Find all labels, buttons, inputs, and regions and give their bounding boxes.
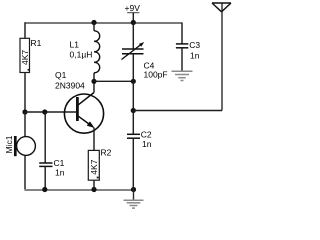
svg-text:R2: R2 bbox=[101, 148, 112, 158]
wire C4 bottom lead bbox=[132, 54, 134, 82]
variable capacitor C4 bbox=[122, 42, 145, 59]
node C4 bottom junction bbox=[131, 79, 136, 84]
svg-text:C3: C3 bbox=[189, 40, 200, 50]
svg-text:Mic1: Mic1 bbox=[4, 135, 14, 153]
svg-text:1n: 1n bbox=[55, 168, 65, 178]
wire emitter lead bbox=[93, 128, 95, 151]
svg-text:2N3904: 2N3904 bbox=[55, 81, 85, 91]
svg-text:C2: C2 bbox=[141, 129, 152, 139]
svg-text:Q1: Q1 bbox=[55, 70, 67, 80]
capacitor C1 bbox=[39, 163, 52, 166]
antenna bbox=[212, 3, 231, 111]
wire R1 top lead bbox=[24, 23, 26, 39]
wire C1 top lead bbox=[44, 112, 46, 163]
resistor R2 bbox=[88, 150, 99, 180]
svg-text:100pF: 100pF bbox=[144, 70, 168, 80]
microphone Mic1 bbox=[15, 112, 35, 190]
resistor R1 bbox=[20, 38, 30, 72]
ground bottom bbox=[124, 190, 144, 209]
capacitor C2 bbox=[127, 134, 140, 138]
wire bottom rail bbox=[24, 189, 133, 191]
node collector junction bbox=[91, 79, 96, 84]
wire to antenna bbox=[133, 110, 222, 112]
wire C4 top lead bbox=[132, 23, 134, 50]
capacitor C3 bbox=[176, 44, 188, 48]
node C1 bottom junction bbox=[42, 187, 47, 192]
node C1 top junction bbox=[42, 109, 47, 114]
wire R1 bottom lead bbox=[24, 73, 26, 113]
wire C2 top lead bbox=[132, 111, 134, 135]
transistor Q1 bbox=[64, 93, 103, 134]
node R2 bottom junction bbox=[91, 187, 96, 192]
svg-text:4K7: 4K7 bbox=[20, 50, 30, 65]
svg-text:+9V: +9V bbox=[125, 3, 141, 13]
svg-text:R1: R1 bbox=[31, 38, 42, 48]
wire collector to C4 bbox=[94, 80, 133, 82]
svg-text:4K7: 4K7 bbox=[89, 159, 99, 174]
wire top rail +9V bbox=[24, 22, 182, 24]
svg-text:0,1µH: 0,1µH bbox=[70, 50, 93, 60]
wire C2 bottom lead bbox=[132, 138, 134, 189]
node base-left junction bbox=[22, 109, 27, 114]
node ground junction bbox=[131, 187, 136, 192]
node L1 top junction bbox=[91, 20, 96, 25]
wire C3 top lead bbox=[181, 23, 183, 44]
svg-text:L1: L1 bbox=[70, 39, 80, 49]
wire C1 bottom lead bbox=[44, 166, 46, 189]
wire C4 node down to antenna node bbox=[132, 81, 134, 110]
node antenna junction bbox=[131, 108, 136, 113]
power +9V bbox=[125, 3, 141, 23]
svg-text:1n: 1n bbox=[142, 139, 152, 149]
inductor L1 bbox=[94, 23, 100, 82]
svg-text:1n: 1n bbox=[190, 50, 200, 60]
node supply junction bbox=[131, 20, 136, 25]
wire R2 bottom lead bbox=[93, 180, 95, 189]
ground under C3 bbox=[172, 48, 193, 81]
wire base rail bbox=[25, 111, 76, 113]
wire collector lead bbox=[93, 81, 95, 92]
